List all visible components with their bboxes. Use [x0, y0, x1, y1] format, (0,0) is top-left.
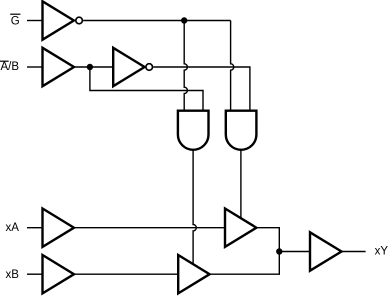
wire U3 output to AND2 right input	[153, 67, 250, 111]
buffer U2 (A/B)	[43, 48, 75, 86]
wire xB input	[27, 273, 43, 275]
wire AND1 output down to U7 enable (hop at y=227.6)	[193, 150, 196, 264]
buffer U7 (B-channel 3-state buffer)	[178, 255, 209, 293]
wire xA buffer output to U6 input	[74, 227, 225, 229]
wire U1 output to corner	[83, 20, 230, 22]
wire U2 output to U3 input	[74, 66, 113, 68]
wire xB buffer output to U7 input	[74, 273, 178, 275]
svg-text:xA: xA	[6, 222, 20, 234]
svg-text:G: G	[11, 15, 20, 27]
wire Y net to output buffer	[279, 251, 310, 253]
node junction dot on Y net	[276, 248, 282, 254]
svg-text:xB: xB	[6, 269, 20, 281]
node G input label	[10, 14, 20, 27]
and-gate U4 (A-channel enable)	[178, 111, 209, 150]
wire AND2 output down to U6 enable	[240, 150, 242, 218]
wire lower branch from A/B dot to AND1 right input	[90, 67, 203, 111]
buffer U6 (A-channel 3-state buffer)	[225, 209, 256, 247]
buffer U10 (output buffer)	[310, 232, 342, 270]
wire vertical from G dot to AND1 left input (hops at y=67 and y=90.4)	[184, 21, 187, 111]
wire vertical from corner to AND2 left input (hop at y=67)	[231, 21, 234, 111]
buffer U8 (xA input buffer)	[43, 209, 75, 247]
inverter U1 (G)	[43, 1, 83, 39]
wire G input	[27, 20, 43, 22]
wire xA input	[27, 227, 43, 229]
wire output buffer to xY	[342, 251, 366, 253]
node A-bar/B input label	[0, 61, 19, 73]
node junction dot on G-bar net	[181, 17, 187, 23]
svg-text:xY: xY	[375, 246, 389, 258]
wire U6 output to output node	[256, 228, 279, 252]
and-gate U5 (B-channel enable)	[226, 111, 257, 150]
buffer U9 (xB input buffer)	[43, 255, 75, 293]
wire A/B input	[27, 66, 43, 68]
svg-text:A/B: A/B	[1, 61, 20, 73]
wire U7 output to output node	[210, 252, 280, 275]
node junction dot on buffered A/B net	[87, 64, 93, 70]
inverter U3 (select inverter)	[113, 48, 152, 86]
